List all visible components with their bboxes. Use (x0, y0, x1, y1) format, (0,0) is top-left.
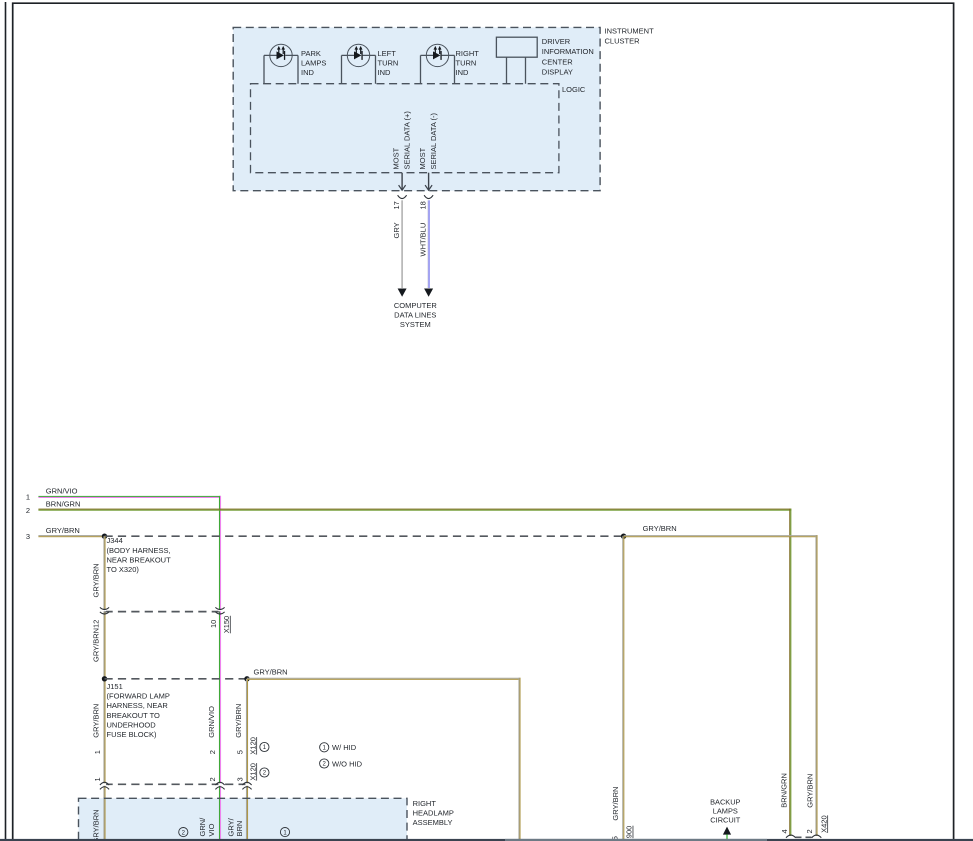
node J151 junction dot (102, 676, 107, 681)
svg-text:X120: X120 (248, 737, 257, 755)
svg-text:TURN: TURN (378, 58, 399, 67)
svg-text:CENTER: CENTER (542, 57, 573, 66)
wire GRY pin17 to computer data lines (398, 200, 407, 296)
computer data lines system label (394, 301, 438, 329)
svg-text:LAMPS: LAMPS (713, 806, 738, 815)
svg-text:BRN: BRN (235, 821, 244, 837)
svg-text:BREAKOUT TO: BREAKOUT TO (107, 711, 161, 720)
left turn label (378, 49, 399, 77)
svg-text:X120: X120 (248, 763, 257, 781)
svg-text:5: 5 (236, 750, 245, 754)
node J344 junction dot (102, 534, 107, 539)
svg-text:BRN/GRN: BRN/GRN (46, 499, 81, 508)
X420 dashed line (796, 836, 813, 838)
svg-text:2: 2 (208, 750, 217, 754)
svg-text:IND: IND (301, 68, 315, 77)
X150 connector halves at right wire (215, 607, 224, 614)
wire GRY/BRN horizontal to X420 (624, 535, 818, 537)
bottom band (0, 839, 973, 841)
wire GRY/BRN vertical from J344 (103, 536, 105, 841)
svg-text:NEAR BREAKOUT: NEAR BREAKOUT (107, 555, 172, 564)
svg-text:LOGIC: LOGIC (562, 85, 586, 94)
X120 connector halves at wire x247 (242, 782, 251, 789)
svg-text:GRY/: GRY/ (227, 817, 236, 836)
variant 2 circle at X120 (260, 768, 269, 777)
svg-text:TO X320): TO X320) (107, 565, 140, 574)
most serial data minus label (418, 112, 438, 169)
svg-text:RIGHT: RIGHT (413, 799, 437, 808)
svg-text:SERIAL DATA (-): SERIAL DATA (-) (429, 112, 438, 169)
svg-text:1: 1 (26, 493, 30, 502)
instrument cluster box (233, 27, 600, 190)
wire from logic to pin 17 (399, 173, 406, 191)
svg-text:1: 1 (93, 777, 102, 781)
driver information center display label (542, 37, 594, 77)
X420 connector half at pin 2 (812, 835, 822, 838)
svg-text:(BODY HARNESS,: (BODY HARNESS, (107, 546, 171, 555)
pin 17 connector half (398, 195, 407, 198)
wire WHT/BLU pin18 to computer data lines (424, 200, 433, 296)
J344 label (107, 536, 172, 574)
svg-text:GRY/BRN: GRY/BRN (92, 628, 101, 662)
svg-text:SYSTEM: SYSTEM (400, 320, 431, 329)
svg-text:J344: J344 (107, 536, 123, 545)
svg-text:3: 3 (26, 532, 30, 541)
svg-text:18: 18 (418, 201, 427, 209)
wire 1 GRN/VIO vertical (219, 496, 221, 841)
J344 breakout dashed line (105, 535, 624, 537)
backup lamps circuit label (710, 797, 741, 824)
park lamps label (301, 49, 326, 77)
bottom band light segment (505, 839, 767, 841)
wire 2 BRN/GRN vertical (789, 509, 791, 836)
svg-text:GRY/BRN: GRY/BRN (234, 704, 243, 738)
svg-text:2: 2 (26, 506, 30, 515)
svg-text:GRN/: GRN/ (198, 817, 207, 837)
wire from logic to pin 18 (425, 173, 432, 191)
right turn indicator LED (421, 44, 455, 83)
X120 connector dashed line (105, 783, 248, 785)
svg-text:CIRCUIT: CIRCUIT (710, 816, 740, 825)
svg-text:MOST: MOST (392, 147, 401, 169)
svg-text:LEFT: LEFT (378, 49, 397, 58)
svg-text:W/O HID: W/O HID (332, 760, 363, 769)
right headlamp assembly box (79, 798, 408, 841)
svg-text:2: 2 (208, 777, 217, 781)
svg-text:COMPUTER: COMPUTER (394, 301, 438, 310)
GRY/BRN label inside headlamp box right (227, 817, 245, 836)
svg-text:GRN/VIO: GRN/VIO (207, 706, 216, 738)
svg-text:RIGHT: RIGHT (456, 49, 480, 58)
right headlamp assembly label (413, 799, 454, 827)
svg-text:FUSE BLOCK): FUSE BLOCK) (107, 730, 158, 739)
svg-text:DATA LINES: DATA LINES (394, 311, 436, 320)
svg-text:GRY/BRN: GRY/BRN (254, 667, 288, 676)
park lamps indicator LED (264, 44, 298, 83)
svg-text:CLUSTER: CLUSTER (605, 37, 641, 46)
svg-text:INFORMATION: INFORMATION (542, 47, 594, 56)
svg-text:IND: IND (456, 68, 470, 77)
X120 connector halves at wire x104 (100, 782, 109, 789)
svg-text:GRN/VIO: GRN/VIO (46, 487, 78, 496)
svg-text:X150: X150 (222, 616, 231, 634)
variant 1 circle at X120 (260, 742, 269, 751)
svg-text:(FORWARD LAMP: (FORWARD LAMP (107, 692, 170, 701)
svg-text:BRN/GRN: BRN/GRN (780, 773, 789, 808)
X420 connector half at pin 4 (786, 835, 796, 838)
svg-text:UNDERHOOD: UNDERHOOD (107, 720, 157, 729)
svg-text:GRY/BRN: GRY/BRN (46, 526, 80, 535)
wire 2 BRN/GRN horizontal (38, 509, 791, 511)
wire GRY/BRN from J151 to right (247, 678, 521, 680)
svg-text:HARNESS, NEAR: HARNESS, NEAR (107, 701, 169, 710)
X150 connector halves at left wire (100, 607, 109, 614)
wire GRN/VIO inside headlamp box (219, 799, 221, 841)
wire 1 GRN/VIO horizontal (38, 496, 221, 498)
svg-text:BACKUP: BACKUP (710, 797, 740, 806)
svg-text:GRY/BRN: GRY/BRN (92, 563, 101, 597)
svg-text:LAMPS: LAMPS (301, 58, 326, 67)
left turn indicator LED (342, 44, 376, 83)
svg-text:TURN: TURN (456, 58, 477, 67)
svg-text:12: 12 (92, 620, 101, 628)
svg-text:17: 17 (392, 201, 401, 209)
driver information center display (496, 37, 537, 83)
node J151 right junction dot (244, 676, 249, 681)
svg-text:3: 3 (236, 777, 245, 781)
svg-text:GRY/BRN: GRY/BRN (92, 809, 101, 841)
svg-text:2: 2 (805, 829, 814, 833)
svg-text:GRY/BRN: GRY/BRN (92, 704, 101, 738)
svg-text:PARK: PARK (301, 49, 321, 58)
legend variant 1 (320, 743, 357, 752)
backup lamps off-page arrow (723, 827, 731, 841)
GRN/VIO label inside headlamp box (198, 817, 216, 837)
J151 label (107, 682, 170, 739)
wire 3 GRY/BRN horizontal (38, 535, 104, 537)
pin 18 connector half (424, 195, 433, 198)
svg-text:VIO: VIO (207, 823, 216, 836)
variant 2 circle inside headlamp box (179, 828, 188, 837)
svg-text:1: 1 (93, 750, 102, 754)
J151 breakout dashed line (105, 678, 248, 680)
wire GRY/BRN x247 inside headlamp box (246, 799, 248, 841)
svg-text:DISPLAY: DISPLAY (542, 68, 573, 77)
svg-text:GRY/BRN: GRY/BRN (611, 787, 620, 821)
svg-text:HEADLAMP: HEADLAMP (413, 808, 454, 817)
wire GRY/BRN vertical x520 (518, 678, 520, 841)
svg-text:MOST: MOST (418, 147, 427, 169)
svg-text:GRY/BRN: GRY/BRN (643, 524, 677, 533)
svg-text:WHT/BLU: WHT/BLU (418, 223, 427, 257)
svg-text:INSTRUMENT: INSTRUMENT (605, 26, 655, 35)
wire GRY/BRN inside headlamp box (103, 799, 105, 841)
instrument cluster label (605, 26, 655, 45)
logic box (251, 84, 559, 173)
page edge line (left of frame) (5, 2, 7, 841)
wire GRY/BRN vertical x816 (815, 535, 817, 836)
svg-text:GRY/BRN: GRY/BRN (806, 774, 815, 808)
svg-text:10: 10 (209, 620, 218, 628)
node J344 right junction dot (621, 534, 626, 539)
X120 connector halves at wire x220 (215, 782, 224, 789)
wire GRY/BRN vertical from J344 right dot (622, 536, 624, 841)
most serial data plus label (392, 111, 412, 170)
legend variant 2 (320, 759, 363, 769)
svg-text:DRIVER: DRIVER (542, 37, 571, 46)
svg-text:SERIAL DATA (+): SERIAL DATA (+) (403, 111, 412, 170)
right turn label (456, 49, 480, 77)
svg-text:W/ HID: W/ HID (332, 743, 357, 752)
svg-text:X420: X420 (819, 815, 828, 833)
svg-text:ASSEMBLY: ASSEMBLY (413, 818, 453, 827)
wire GRY/BRN vertical x247 (246, 679, 248, 841)
svg-text:IND: IND (378, 68, 392, 77)
svg-text:J151: J151 (107, 682, 123, 691)
X150 connector dashed line (105, 611, 221, 613)
svg-text:900: 900 (625, 826, 634, 839)
svg-text:4: 4 (780, 829, 789, 833)
variant 1 circle inside headlamp box (280, 828, 289, 837)
svg-text:GRY: GRY (392, 222, 401, 238)
